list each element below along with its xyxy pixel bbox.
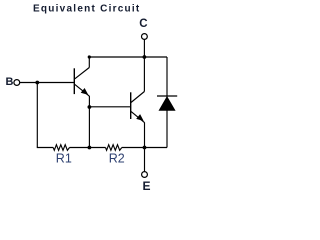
junction node E tap on bottom rail xyxy=(143,146,147,150)
wire node E1 to R2 xyxy=(89,147,105,149)
resistor R2 xyxy=(106,145,122,151)
wire E terminal below bottom rail xyxy=(144,148,146,172)
wire B junction down to bottom rail xyxy=(36,83,38,148)
wire bottom rail segment left (B corner to R1) xyxy=(37,147,53,149)
svg-text:C: C xyxy=(139,18,147,30)
wire Q1 emitter down to bottom rail xyxy=(88,96,90,148)
wire R2 to node E2 and corner to diode branch xyxy=(122,147,167,149)
transistor Q1 base bar xyxy=(73,68,75,94)
svg-text:Equivalent Circuit: Equivalent Circuit xyxy=(33,3,141,14)
wire diode branch right vertical xyxy=(166,57,168,148)
wire node E1 to Q2 base xyxy=(89,106,130,108)
junction node C tap on top rail xyxy=(143,55,147,59)
junction node at B wire xyxy=(35,81,39,85)
terminal E circle xyxy=(142,172,148,178)
wire R1 to node E1 xyxy=(70,147,90,149)
diode D1 anode triangle xyxy=(159,97,175,111)
wire B terminal to Q1 base xyxy=(20,82,74,84)
junction node E1: Q1 emitter / Q2 base xyxy=(88,105,92,109)
wire Q2 emitter down to bottom rail xyxy=(144,122,146,147)
resistor R1 xyxy=(53,145,69,151)
svg-text:E: E xyxy=(143,179,151,192)
transistor Q2 emitter diagonal xyxy=(131,111,145,122)
wire C terminal down through rail to Q2 collector xyxy=(143,40,145,92)
transistor Q1 emitter arrow xyxy=(81,88,89,95)
diode D1 cathode bar xyxy=(157,95,177,97)
transistor Q1 collector diagonal xyxy=(75,68,90,79)
svg-text:R1: R1 xyxy=(56,151,72,165)
transistor Q1 emitter diagonal xyxy=(75,84,90,96)
terminal B circle xyxy=(14,80,20,86)
junction node Q1 collector at top rail xyxy=(88,55,91,58)
transistor Q2 base bar xyxy=(130,92,132,119)
junction node R1-R2 on bottom rail xyxy=(88,146,92,150)
transistor Q2 emitter arrow xyxy=(136,114,144,121)
transistor Q2 collector diagonal xyxy=(131,92,144,103)
svg-text:R2: R2 xyxy=(109,151,125,165)
wire top rail xyxy=(89,56,167,58)
terminal C circle xyxy=(142,34,148,40)
svg-text:B: B xyxy=(6,76,14,88)
wire Q1 collector up to top rail xyxy=(88,57,90,68)
